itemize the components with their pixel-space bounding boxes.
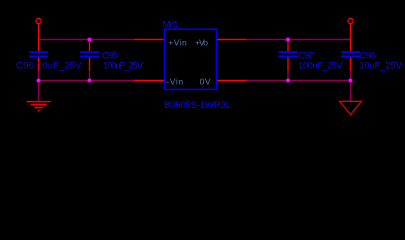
svg-text:+Vo: +Vo: [195, 37, 208, 47]
svg-text:100nF_25V: 100nF_25V: [103, 60, 144, 71]
svg-text:0V: 0V: [200, 77, 211, 87]
svg-text:10uF_25V: 10uF_25V: [37, 60, 82, 71]
svg-text:MK1: MK1: [163, 20, 179, 31]
svg-text:10uF_25V: 10uF_25V: [359, 60, 402, 71]
svg-text:-Vin: -Vin: [166, 77, 183, 87]
svg-text:C96: C96: [16, 60, 34, 71]
svg-text:B0505S-1WR3L: B0505S-1WR3L: [164, 100, 231, 111]
svg-text:+Vin: +Vin: [168, 37, 187, 47]
svg-text:100nF_25V: 100nF_25V: [298, 60, 343, 71]
